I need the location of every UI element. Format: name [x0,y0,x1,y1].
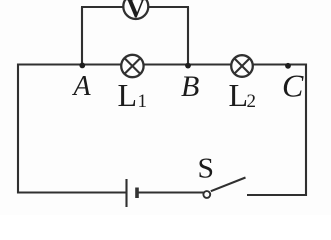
svg-text:V: V [126,0,146,23]
lamp L2 [231,55,253,77]
wire: left vertical [17,64,19,194]
svg-text:B: B [181,70,199,103]
battery cell: short thick negative plate [135,188,139,199]
svg-text:C: C [282,68,304,104]
wire: voltmeter branch top horizontal [81,6,189,8]
wire: battery to switch [139,191,204,193]
lamp L1 [121,55,143,77]
switch S pivot circle [203,191,210,198]
wire: bottom left to battery [17,191,126,193]
battery cell: long thin positive plate [125,179,127,207]
svg-text:L: L [118,77,138,113]
node B junction dot [185,63,191,69]
svg-text:2: 2 [247,91,257,112]
svg-text:L: L [229,77,249,113]
node A junction dot [79,63,85,69]
svg-text:1: 1 [138,91,148,112]
svg-text:S: S [198,154,215,185]
wire: voltmeter branch right vertical from node B [187,7,189,65]
svg-text:A: A [72,71,92,102]
wire: top main wire A-B-C [18,63,306,65]
wire: right vertical [305,64,307,197]
node C junction dot [285,63,291,69]
switch S lever [211,178,246,192]
voltmeter V [123,0,148,23]
wire: voltmeter branch left vertical from node A [81,7,83,65]
wire: switch to right corner [247,194,307,196]
